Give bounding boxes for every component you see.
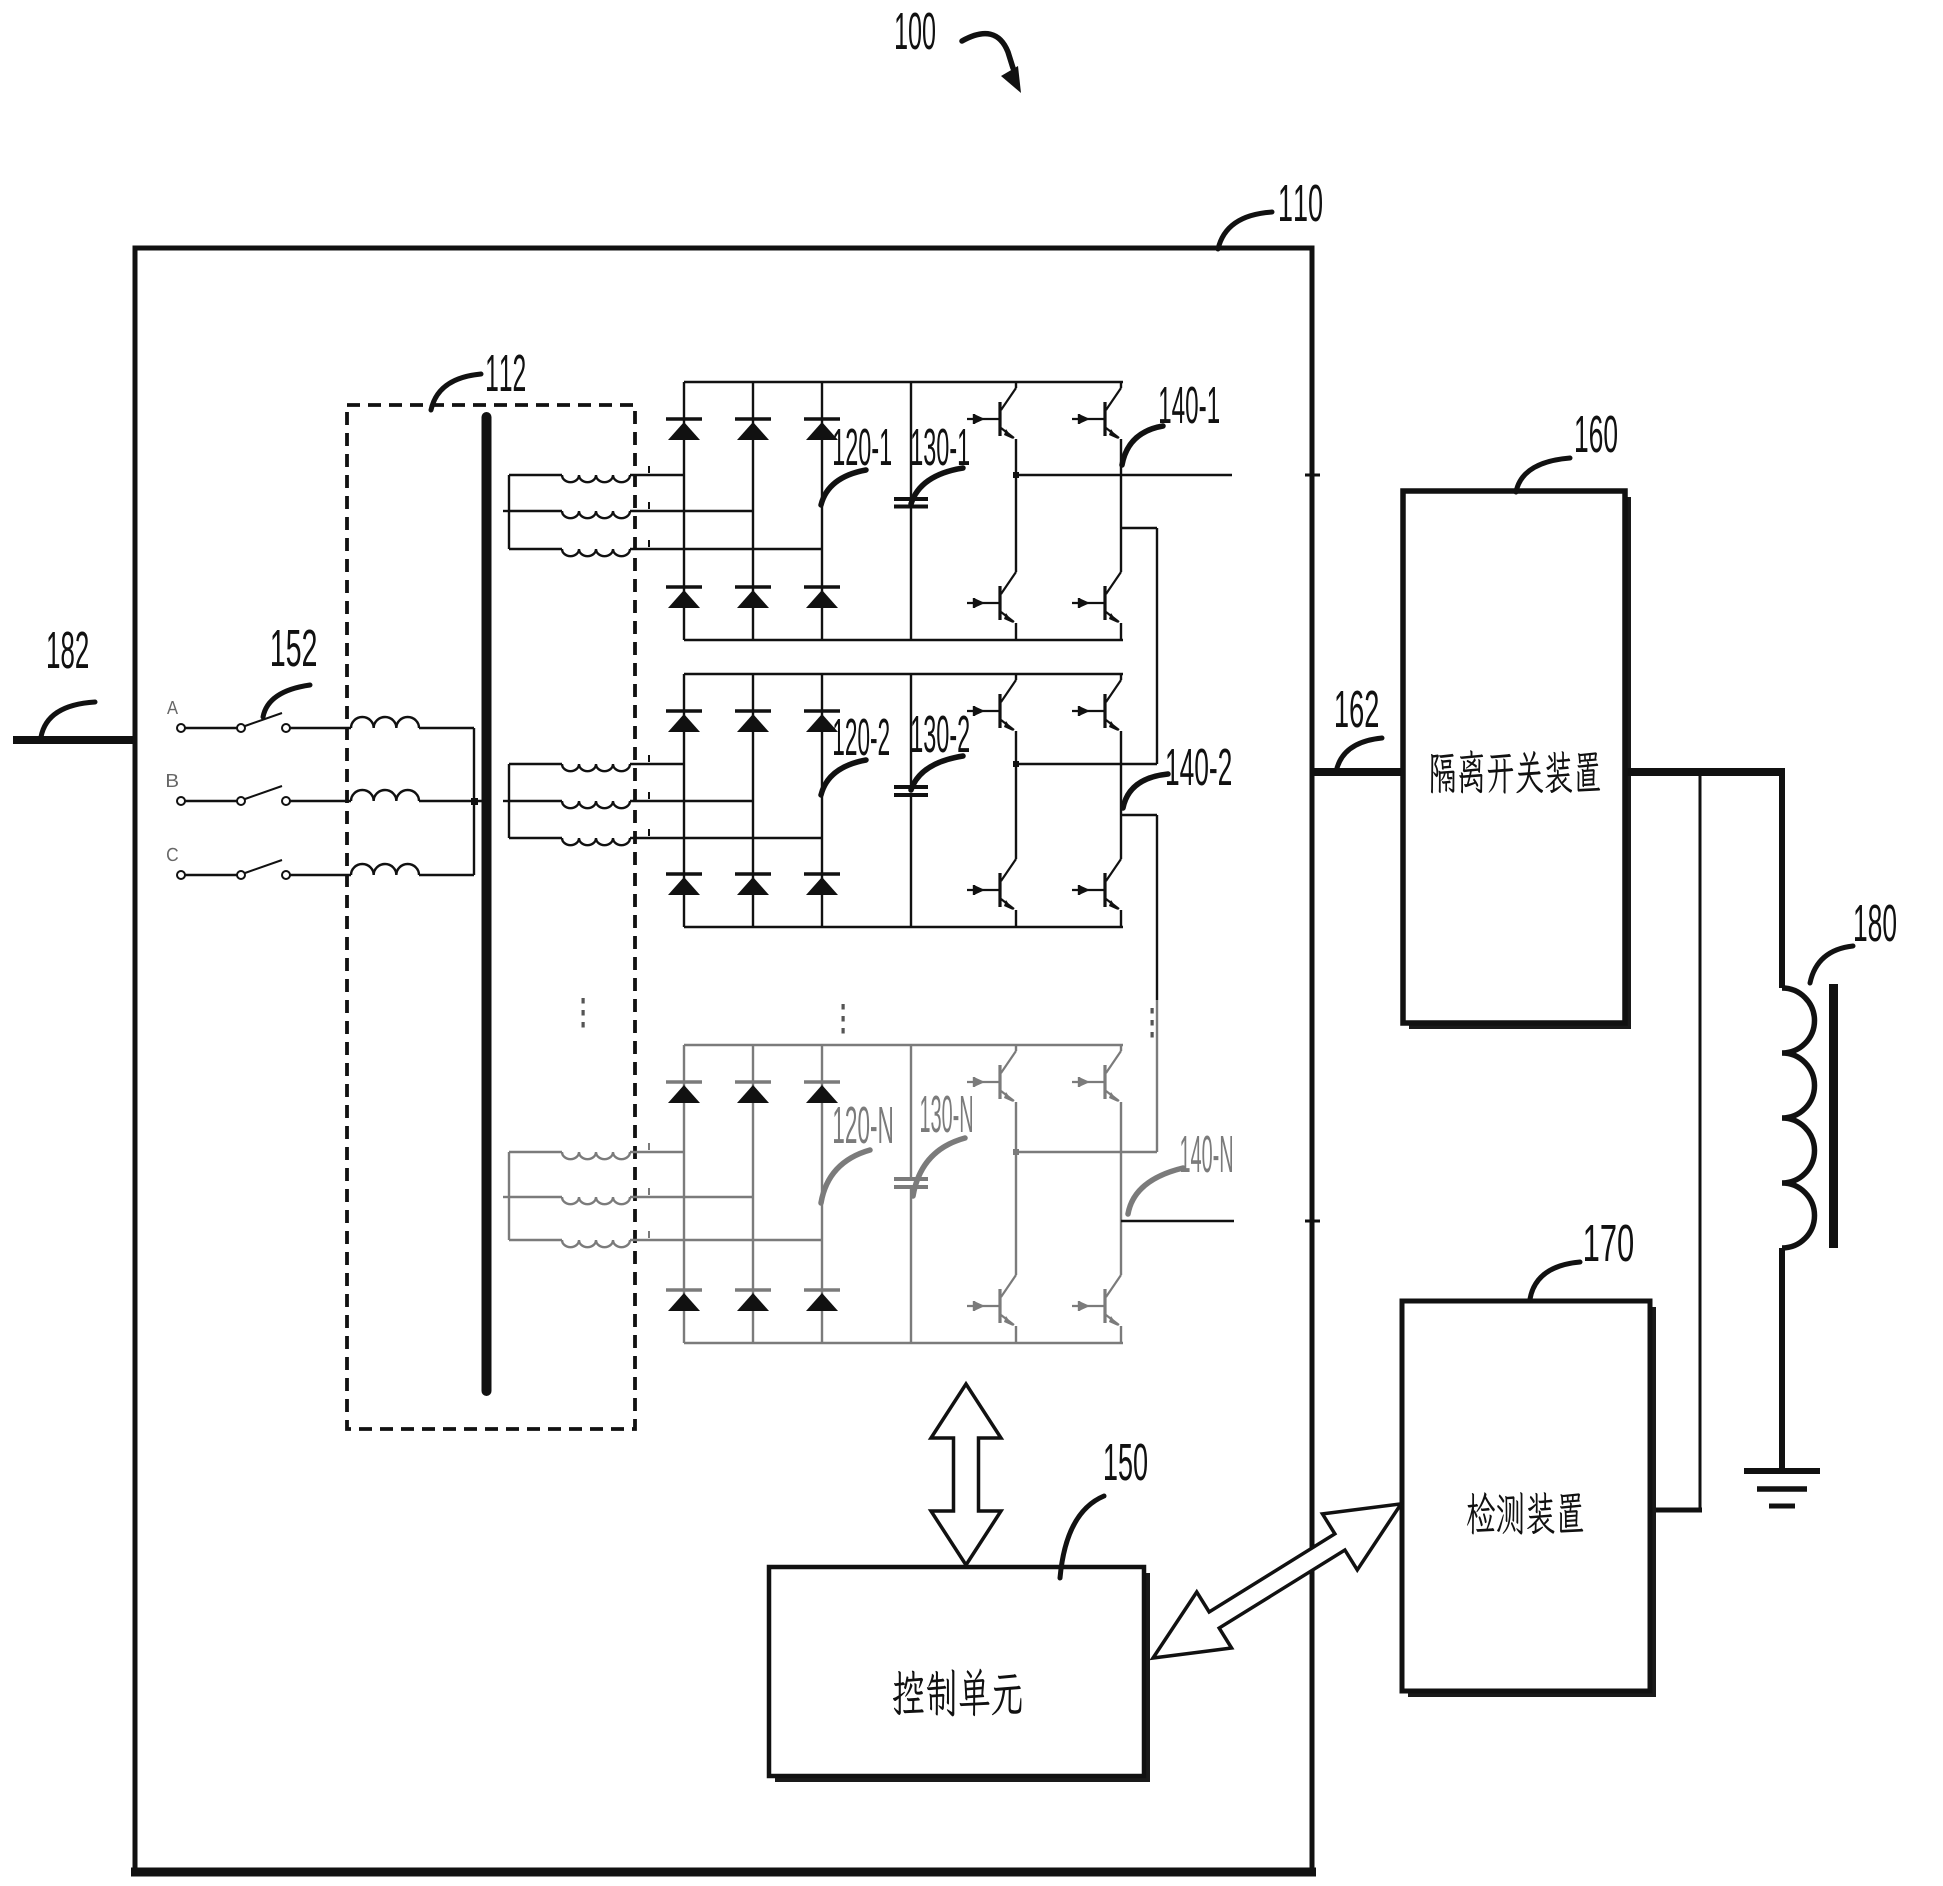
secondary winding converter 1 [562, 511, 630, 518]
wire winding to rectifier converter 1 [630, 548, 822, 550]
wire rectifier leg a converter N [683, 1045, 685, 1343]
diode lower 1 of rectifier 120-1 [666, 587, 702, 608]
transistor lower-left of inverter 140-1 [967, 572, 1016, 623]
wire capacitor bottom lead 130-1 [910, 507, 912, 641]
star stub converter 2 [503, 800, 509, 802]
label 120-2 [834, 718, 889, 755]
label 170 [1585, 1224, 1633, 1261]
leader for label 170 [1530, 1262, 1580, 1299]
diode upper 1 of rectifier 120-1 [666, 419, 702, 440]
converter enclosure box 110 [135, 248, 1312, 1870]
wire capacitor top lead 130-N [910, 1045, 912, 1179]
secondary winding converter N [562, 1197, 630, 1204]
primary inductor phase A [351, 717, 419, 728]
secondary winding converter 1 [562, 475, 630, 482]
label 120-N [834, 1106, 892, 1143]
wire winding to rectifier converter 1 [630, 510, 753, 512]
double arrow control unit to detection device [1136, 1476, 1419, 1686]
leader for 140-2 [1123, 774, 1168, 808]
leader for 130-N [913, 1138, 965, 1196]
transformer core busbar 112 [482, 417, 492, 1391]
secondary winding converter 2 [562, 764, 630, 771]
continuation ellipsis [582, 998, 585, 1028]
wire collector lower-right 140-2 [1120, 815, 1122, 859]
wire winding to rectifier converter 1 [630, 474, 684, 476]
arrowhead of 100 leader [1001, 66, 1021, 93]
wire emitter upper-left 140-N [1015, 1102, 1017, 1152]
leader arrow for 100 [962, 34, 1013, 68]
wire emitter lower-left 140-1 [1015, 623, 1017, 640]
wire rectifier leg c converter 1 [821, 382, 823, 640]
wire winding lead converter N [509, 1239, 562, 1241]
transistor upper-left of inverter 140-N [967, 1051, 1016, 1102]
diode lower 3 of rectifier 120-N [804, 1290, 840, 1311]
wire inductor 180 to ground [1779, 1248, 1785, 1471]
wire DC bottom rail converter N [684, 1342, 1123, 1344]
star point wire converter 1 [508, 475, 510, 549]
transistor lower-right of inverter 140-N [1072, 1275, 1121, 1326]
switch 152 phase A [177, 713, 290, 732]
wire rectifier leg a converter 1 [683, 382, 685, 640]
winding polarity tick converter 1 [648, 540, 650, 547]
leader for 120-N [821, 1150, 870, 1203]
leader for 130-1 [911, 468, 963, 504]
wire switch B to inductor [290, 800, 351, 802]
grounding inductor coil 180 [1782, 988, 1815, 1248]
wire emitter upper-right 140-N [1120, 1102, 1122, 1221]
transistor upper-left of inverter 140-2 [967, 680, 1016, 731]
text 检测装置 in box 170 [1467, 1492, 1583, 1534]
isolation switch device box 160 [1403, 491, 1625, 1023]
label 130-N [921, 1095, 972, 1132]
phase label A [167, 701, 178, 714]
label 160 [1576, 415, 1617, 452]
wire down to inductor 180 [1779, 768, 1785, 988]
ground symbol [1744, 1471, 1820, 1506]
wire box 160 to grounding transformer [1625, 768, 1782, 776]
detection device box 170 [1402, 1301, 1650, 1691]
diode upper 1 of rectifier 120-N [666, 1082, 702, 1103]
star point wire converter N [508, 1152, 510, 1240]
sense wire down to detection device 170 [1699, 776, 1702, 1510]
series link wire 140-2 to 140-N upper [1156, 815, 1158, 1000]
wire AC output stub lower 140-N [1121, 1220, 1234, 1223]
wire collector lower-left 140-1 [1015, 475, 1017, 572]
diode upper 2 of rectifier 120-2 [735, 711, 771, 732]
winding polarity tick converter 2 [648, 755, 650, 762]
control unit box 150 shadow [775, 1573, 1150, 1782]
capacitor 130-N [894, 1179, 928, 1187]
wire switch A to inductor [290, 727, 351, 729]
secondary winding converter 1 [562, 549, 630, 556]
dashed transformer box 112 [347, 405, 635, 1429]
continuation ellipsis [1151, 1008, 1154, 1038]
switch 152 phase B [177, 786, 290, 805]
label 112 [487, 354, 525, 391]
wire inductor A to star point [419, 727, 474, 729]
diode upper 2 of rectifier 120-N [735, 1082, 771, 1103]
wire rectifier leg c converter N [821, 1045, 823, 1343]
secondary winding converter 2 [562, 838, 630, 845]
wire winding lead converter 1 [509, 510, 562, 512]
transistor lower-left of inverter 140-N [967, 1275, 1016, 1326]
wire rectifier leg b converter 2 [752, 674, 754, 927]
double arrow control unit to converters [931, 1384, 1001, 1565]
sense wire into detection device 170 [1648, 1508, 1702, 1513]
wire inductor B to star point [419, 800, 484, 802]
wire collector lower-right 140-N [1120, 1221, 1122, 1275]
diode upper 2 of rectifier 120-1 [735, 419, 771, 440]
wire winding lead converter 2 [509, 763, 562, 765]
leader for label 162 [1336, 738, 1382, 772]
capacitor 130-1 [894, 499, 928, 507]
label 140-N [1181, 1135, 1232, 1172]
continuation ellipsis [842, 1004, 845, 1034]
label 140-2 [1167, 748, 1231, 785]
leader for 120-2 [821, 760, 866, 795]
secondary winding converter 2 [562, 801, 630, 808]
label 140-1 [1160, 386, 1219, 423]
output terminal tick lower on box 110 [1305, 1220, 1320, 1223]
winding polarity tick converter 2 [648, 792, 650, 799]
transistor upper-right of inverter 140-2 [1072, 680, 1121, 731]
wire collector upper-right 140-N [1120, 1045, 1122, 1051]
wire 140-1 lower output to link [1121, 527, 1157, 529]
wire 162 output link [1312, 768, 1403, 776]
phase label B [167, 774, 178, 787]
diode upper 3 of rectifier 120-2 [804, 711, 840, 732]
isolation switch device box 160 shadow [1409, 497, 1631, 1029]
winding polarity tick converter N [648, 1188, 650, 1195]
secondary winding converter N [562, 1152, 630, 1159]
diode lower 1 of rectifier 120-N [666, 1290, 702, 1311]
text 控制单元 in box 150 [893, 1669, 1021, 1717]
diode lower 2 of rectifier 120-N [735, 1290, 771, 1311]
diode upper 3 of rectifier 120-N [804, 1082, 840, 1103]
junction dot output A 140-2 [1013, 761, 1019, 767]
wire emitter lower-right 140-2 [1120, 910, 1122, 927]
leader for label 150 [1060, 1496, 1104, 1578]
leader for 130-2 [911, 756, 963, 790]
label 130-2 [912, 715, 969, 752]
wire collector upper-left 140-2 [1015, 674, 1017, 680]
capacitor 130-2 [894, 787, 928, 795]
detection device box 170 shadow [1408, 1307, 1656, 1697]
wire winding lead converter 1 [509, 474, 562, 476]
wire winding to rectifier converter N [630, 1239, 822, 1241]
wire collector lower-left 140-2 [1015, 764, 1017, 859]
wire emitter upper-left 140-1 [1015, 439, 1017, 475]
wire capacitor bottom lead 130-2 [910, 795, 912, 927]
winding polarity tick converter 1 [648, 466, 650, 473]
star stub converter 1 [503, 510, 509, 512]
wire emitter lower-left 140-2 [1015, 910, 1017, 927]
wire collector upper-right 140-1 [1120, 382, 1122, 388]
label 162 [1336, 690, 1378, 727]
label 182 [48, 631, 88, 668]
grid terminal wire 182 [13, 736, 135, 744]
wire capacitor top lead 130-1 [910, 382, 912, 499]
transistor lower-right of inverter 140-1 [1072, 572, 1121, 623]
diode lower 2 of rectifier 120-1 [735, 587, 771, 608]
leader for label 160 [1516, 458, 1570, 492]
transistor lower-left of inverter 140-2 [967, 859, 1016, 910]
wire emitter lower-left 140-N [1015, 1326, 1017, 1343]
wire winding to rectifier converter N [630, 1151, 684, 1153]
transistor lower-right of inverter 140-2 [1072, 859, 1121, 910]
wire 140-N upper output [1016, 1151, 1157, 1153]
star point wire converter 2 [508, 764, 510, 838]
text 隔离开关装置 in box 160 [1431, 750, 1600, 793]
wire winding lead converter 1 [509, 548, 562, 550]
leader for 140-1 [1122, 426, 1163, 465]
transistor upper-left of inverter 140-1 [967, 388, 1016, 439]
diode lower 1 of rectifier 120-2 [666, 874, 702, 895]
wire winding lead converter 2 [509, 837, 562, 839]
outer box 110 bottom thick edge [131, 1868, 1316, 1877]
label 100 [896, 12, 935, 49]
wire emitter lower-right 140-1 [1120, 623, 1122, 640]
switch 152 phase C [177, 860, 290, 879]
label 150 [1105, 1443, 1147, 1480]
wire rectifier leg b converter 1 [752, 382, 754, 640]
wire capacitor top lead 130-2 [910, 674, 912, 787]
winding polarity tick converter N [648, 1231, 650, 1238]
wire switch C to inductor [290, 874, 351, 876]
wire winding to rectifier converter N [630, 1196, 753, 1198]
wire winding lead converter N [509, 1151, 562, 1153]
primary inductor phase B [351, 790, 419, 801]
output terminal tick upper on box 110 [1305, 474, 1320, 477]
leader for label 112 [431, 374, 481, 410]
phase label C [167, 848, 178, 861]
wire collector upper-right 140-2 [1120, 674, 1122, 680]
wire emitter upper-left 140-2 [1015, 731, 1017, 764]
wire capacitor bottom lead 130-N [910, 1187, 912, 1343]
junction dot primary star point [471, 798, 478, 805]
series link wire 140-1 to 140-2 [1156, 528, 1158, 764]
star stub converter N [503, 1196, 509, 1198]
wire collector upper-left 140-1 [1015, 382, 1017, 388]
transistor upper-right of inverter 140-N [1072, 1051, 1121, 1102]
leader for 120-1 [821, 470, 866, 505]
wire DC top rail converter 2 [684, 673, 1123, 675]
wire collector lower-left 140-N [1015, 1152, 1017, 1275]
junction dot output A 140-1 [1013, 472, 1019, 478]
wire DC bottom rail converter 2 [684, 926, 1123, 928]
wire rectifier leg c converter 2 [821, 674, 823, 927]
label 110 [1280, 184, 1322, 221]
wire winding lead converter N [509, 1196, 562, 1198]
diode upper 3 of rectifier 120-1 [804, 419, 840, 440]
label 130-1 [912, 428, 969, 465]
control unit box 150 [769, 1567, 1144, 1776]
diode upper 1 of rectifier 120-2 [666, 711, 702, 732]
winding polarity tick converter N [648, 1143, 650, 1150]
junction dot output A 140-N [1013, 1149, 1019, 1155]
label 120-1 [834, 428, 891, 465]
diode lower 3 of rectifier 120-1 [804, 587, 840, 608]
wire inductor C to star point [419, 874, 474, 876]
wire DC bottom rail converter 1 [684, 639, 1123, 641]
wire emitter upper-right 140-1 [1120, 439, 1122, 528]
wire emitter lower-right 140-N [1120, 1326, 1122, 1343]
wire AC output stub upper 140-1 [1016, 474, 1232, 477]
wire DC top rail converter 1 [684, 381, 1123, 383]
wire rectifier leg b converter N [752, 1045, 754, 1343]
wire rectifier leg a converter 2 [683, 674, 685, 927]
diode lower 2 of rectifier 120-2 [735, 874, 771, 895]
winding polarity tick converter 2 [648, 829, 650, 836]
wire 140-2 upper output [1016, 763, 1157, 765]
leader for label 110 [1218, 212, 1272, 249]
leader for 140-N [1128, 1168, 1183, 1214]
wire winding to rectifier converter 2 [630, 763, 684, 765]
secondary winding converter N [562, 1240, 630, 1247]
transistor upper-right of inverter 140-1 [1072, 388, 1121, 439]
label 152 [272, 629, 316, 666]
wire 140-2 lower output to link [1121, 814, 1157, 816]
wire winding lead converter 2 [509, 800, 562, 802]
leader for label 152 [263, 685, 310, 717]
winding polarity tick converter 1 [648, 502, 650, 509]
leader for label 182 [41, 702, 95, 737]
wire winding to rectifier converter 2 [630, 800, 753, 802]
wire emitter upper-right 140-2 [1120, 731, 1122, 815]
wire winding to rectifier converter 2 [630, 837, 822, 839]
primary inductor phase C [351, 864, 419, 875]
diode lower 3 of rectifier 120-2 [804, 874, 840, 895]
wire collector upper-left 140-N [1015, 1045, 1017, 1051]
wire DC top rail converter N [684, 1044, 1123, 1046]
series link wire 140-2 to 140-N lower [1156, 1000, 1158, 1152]
label 180 [1855, 904, 1896, 941]
leader for label 180 [1810, 946, 1853, 983]
inductor core bar 180 [1829, 984, 1838, 1248]
primary star-point junction wire [473, 728, 475, 875]
wire collector lower-right 140-1 [1120, 528, 1122, 572]
